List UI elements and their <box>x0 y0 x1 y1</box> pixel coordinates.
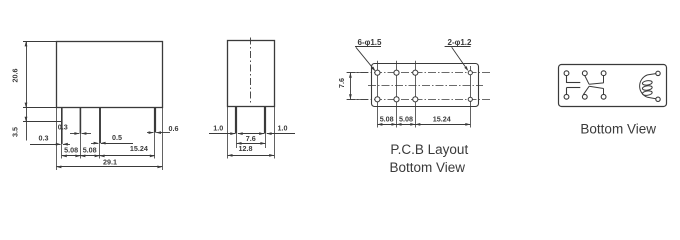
svg-text:0.5: 0.5 <box>112 133 122 142</box>
svg-text:Bottom View: Bottom View <box>580 121 656 136</box>
svg-text:5.08: 5.08 <box>83 146 97 155</box>
svg-text:7.6: 7.6 <box>246 134 256 143</box>
svg-text:15.24: 15.24 <box>433 115 451 124</box>
svg-text:5.08: 5.08 <box>380 115 394 124</box>
svg-text:0.3: 0.3 <box>39 134 49 143</box>
svg-text:7.6: 7.6 <box>337 78 346 88</box>
svg-text:15.24: 15.24 <box>130 144 148 153</box>
svg-text:1.0: 1.0 <box>213 123 223 132</box>
svg-text:5.08: 5.08 <box>64 146 78 155</box>
svg-text:6-φ1.5: 6-φ1.5 <box>358 38 383 47</box>
svg-text:3.5: 3.5 <box>11 127 20 137</box>
svg-text:2-φ1.2: 2-φ1.2 <box>448 38 473 47</box>
svg-text:20.6: 20.6 <box>11 69 20 83</box>
svg-text:12.8: 12.8 <box>239 144 253 153</box>
svg-text:0.6: 0.6 <box>169 124 179 133</box>
svg-text:5.08: 5.08 <box>399 115 413 124</box>
svg-text:29.1: 29.1 <box>103 158 117 167</box>
svg-text:1.0: 1.0 <box>278 123 288 132</box>
svg-text:P.C.B Layout: P.C.B Layout <box>390 142 468 157</box>
svg-text:0.3: 0.3 <box>58 123 68 132</box>
svg-text:Bottom View: Bottom View <box>390 160 466 175</box>
